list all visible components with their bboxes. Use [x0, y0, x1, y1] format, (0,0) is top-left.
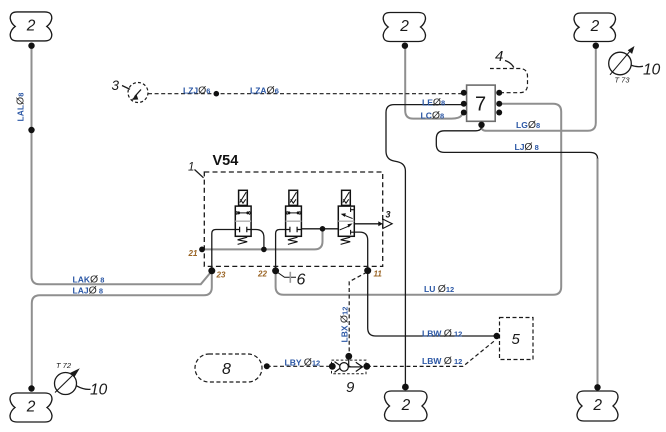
svg-text:LCØ8: LCØ8	[421, 110, 445, 122]
svg-text:LZAØ6: LZAØ6	[250, 84, 279, 96]
junction dot LZ line	[214, 91, 220, 97]
wire port 23 to valve V1 left port	[212, 230, 236, 271]
svg-text:T 72: T 72	[56, 361, 72, 370]
wire LC (top-middle connector to box 7)	[405, 46, 463, 119]
junction dot LAL mid	[28, 127, 34, 133]
valve V3 spring	[341, 237, 351, 244]
svg-text:3: 3	[386, 210, 391, 220]
svg-text:LZJØ6: LZJØ6	[183, 84, 210, 96]
junction dot top-right connector	[593, 43, 599, 49]
junction dot shuttle valve right	[363, 363, 370, 370]
wire dashed link box 7 to item 4	[490, 69, 528, 93]
svg-text:2: 2	[590, 18, 600, 35]
svg-text:2: 2	[399, 18, 409, 35]
svg-text:3: 3	[112, 78, 120, 93]
svg-text:LGØ8: LGØ8	[516, 119, 540, 131]
gauge T72	[55, 361, 108, 399]
valve V2 spring	[288, 237, 298, 244]
svg-text:10: 10	[90, 382, 108, 399]
wire LZJ/LZA dashed pilot line	[148, 93, 463, 95]
wire LBX dashed (port 11 to shuttle valve 9)	[349, 272, 367, 355]
node 23 dot	[208, 267, 215, 274]
svg-text:11: 11	[374, 270, 383, 279]
svg-text:LBX Ø12: LBX Ø12	[339, 307, 351, 343]
label 6 with plus marker	[277, 272, 306, 289]
pin dot block 7 bottom	[478, 122, 484, 128]
svg-text:LBW Ø 12: LBW Ø 12	[422, 355, 462, 367]
junction dot bottom-left connector	[28, 385, 34, 391]
node 22 dot	[272, 267, 279, 274]
valve V2 body	[286, 206, 302, 236]
valve V2 solenoid	[289, 190, 298, 205]
svg-text:2: 2	[592, 397, 602, 414]
connector 2 bottom-right	[577, 391, 618, 421]
svg-text:9: 9	[346, 379, 355, 396]
dashed box 5	[500, 318, 534, 360]
valve V1 spring	[238, 237, 248, 244]
wire valve V2 to valve V3	[301, 228, 338, 230]
wire port 22 to valve V2 left port	[276, 230, 286, 271]
wire LAJ (port 23 to bottom-left connector)	[32, 271, 212, 389]
connector 2 bottom-left	[10, 393, 52, 422]
svg-text:8: 8	[222, 361, 231, 378]
wire LBY dashed (item 8 to shuttle valve 9)	[267, 365, 333, 367]
wire node 21 manifold (inside V54)	[202, 229, 323, 250]
svg-text:V54: V54	[213, 153, 239, 169]
wire LBW (port 11 to box 5)	[368, 271, 497, 336]
wire valve V1 right port to node 21 line	[251, 230, 264, 250]
valve V3 solenoid	[342, 190, 351, 205]
label 1 with leader	[188, 161, 204, 178]
wire valve V3 to port 11	[354, 232, 367, 271]
junction dot top-left connector	[28, 43, 34, 49]
node 21 dot	[199, 247, 205, 253]
svg-text:4: 4	[495, 48, 503, 65]
connector 2 top-left	[10, 12, 52, 41]
junction dot valve V1 output	[261, 247, 267, 253]
svg-text:LEØ8: LEØ8	[422, 97, 445, 109]
junction dot top-middle connector	[402, 43, 408, 49]
dashed circle item 3 (pilot sensor)	[112, 78, 149, 103]
svg-text:LJØ 8: LJØ 8	[515, 141, 539, 153]
junction dot shuttle valve left	[329, 363, 336, 370]
svg-text:LU Ø12: LU Ø12	[424, 283, 454, 295]
svg-text:21: 21	[188, 249, 198, 258]
svg-text:6: 6	[297, 272, 306, 289]
pin dots block 7 right	[496, 90, 502, 96]
connector 2 bottom-middle	[385, 391, 428, 421]
pin dots block 7 left	[461, 90, 467, 96]
junction dot box 5 input	[494, 333, 500, 339]
svg-text:LALØ8: LALØ8	[15, 93, 27, 122]
junction dot shuttle valve top	[345, 353, 352, 360]
valve V3 body	[338, 206, 354, 236]
wire LBW dashed (shuttle valve 9 to box 5)	[367, 340, 495, 366]
valve V1 body	[235, 206, 251, 236]
wire LJ (box 7 bottom port loop to right)	[436, 125, 597, 158]
valve V1 solenoid	[239, 190, 248, 205]
svg-text:LAJØ 8: LAJØ 8	[73, 285, 104, 297]
exhaust port 3 triangle	[383, 210, 392, 229]
connector 2 top-middle	[383, 13, 425, 42]
svg-text:23: 23	[216, 271, 226, 280]
shuttle valve 9	[332, 356, 367, 396]
svg-text:LBW Ø 12: LBW Ø 12	[422, 327, 462, 339]
connector 2 top-right	[574, 13, 616, 42]
junction dot bottom-middle connector	[402, 384, 409, 391]
svg-text:LBY Ø12: LBY Ø12	[285, 357, 321, 369]
block U7	[467, 85, 496, 121]
svg-text:22: 22	[257, 270, 267, 279]
svg-text:10: 10	[643, 62, 661, 79]
junction dot bottom-right connector	[594, 384, 600, 390]
dashed box V54	[204, 172, 382, 266]
wire LE (box 7 left port to bottom-middle connector)	[386, 105, 464, 387]
svg-text:2: 2	[401, 397, 411, 414]
svg-text:2: 2	[26, 399, 36, 416]
wire LU (box 7 right port to port 22)	[276, 104, 562, 295]
svg-text:1: 1	[188, 161, 194, 173]
junction dot valve V2-V3 line	[320, 226, 326, 232]
junction dot item 8 output	[264, 363, 270, 369]
wire LAL/LAK (top-left connector to port 23)	[32, 46, 212, 285]
svg-text:2: 2	[26, 17, 36, 34]
dashed stadium item 8	[195, 354, 262, 382]
wire LJ vertical (to bottom-right connector)	[597, 158, 599, 387]
wire valve V3 to exhaust 3	[354, 223, 379, 225]
label 4 with leader	[495, 48, 514, 68]
node 11 dot	[364, 267, 371, 274]
gauge T73	[609, 46, 661, 85]
svg-text:5: 5	[512, 331, 521, 348]
wire LG (box 7 bottom port to top-right connector)	[482, 46, 596, 131]
svg-text:T 73: T 73	[615, 76, 631, 85]
svg-text:7: 7	[475, 94, 486, 116]
